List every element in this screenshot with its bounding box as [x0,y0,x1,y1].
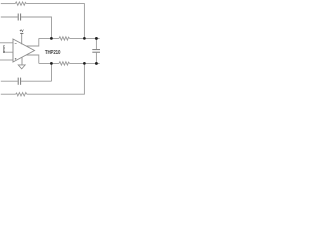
node: junction dot row D mid [50,62,53,65]
wire: VOCM input [5,51,13,53]
op-amp input polarity marks [15,44,17,60]
wire: cap row E right segment [21,80,51,82]
power +V supply stem [21,34,23,45]
node: output terminal upper [95,37,98,40]
resistor R_F (bottom feedback) [16,93,27,96]
wire: cap row E left segment [1,80,18,82]
label VOCM (stacked) [3,44,6,54]
node: junction dot row C right [83,37,86,40]
wire: op-amp lower input [0,59,13,61]
ground symbol [18,65,25,69]
wire: cap row B left segment [1,16,18,18]
wire: row C left segment [39,37,59,39]
resistor R_A (top feedback) [15,2,26,5]
capacitor C_E plate 1 [17,78,19,85]
wire: lower mid riser row D to cap row E [51,63,53,81]
capacitor C_B plate 2 [20,14,22,21]
wire: row C right segment to output [70,37,100,39]
node: junction dot row C mid [50,37,53,40]
node: output terminal lower [95,62,98,65]
background [0,0,100,100]
capacitor C_OUT plate 1 [92,49,100,51]
op-amp U1 THP210 triangle [13,39,35,62]
node: junction dot row D right [83,62,86,65]
resistor R_C (upper output) [59,37,70,40]
wire: right riser row D down to bottom row F [27,63,85,94]
wire: top row A to top-right corner, down to row C [26,4,84,39]
power +V rail bar [20,32,23,34]
wire: cap row B right segment, corner down to row C junction [21,17,51,38]
resistor R_D (lower output) [59,62,70,65]
capacitor C_OUT plate 2 [92,51,100,53]
svg-text:THP210: THP210 [45,50,61,56]
capacitor C_B plate 1 [17,14,19,21]
wire: bottom row F left segment [1,93,16,95]
wire: row D right segment to output [70,62,100,64]
wire: row D left segment [39,62,59,64]
wire: op-amp upper output staircase [26,38,39,46]
wire: op-amp upper input [0,42,13,44]
wire: op-amp lower output staircase [26,55,39,63]
capacitor C_E plate 2 [20,78,22,85]
wire: top feedback row A left segment [1,3,16,5]
wire: output capacitor riser upper [95,38,97,49]
ground stem [21,57,23,65]
wire: output capacitor riser lower [95,53,97,64]
